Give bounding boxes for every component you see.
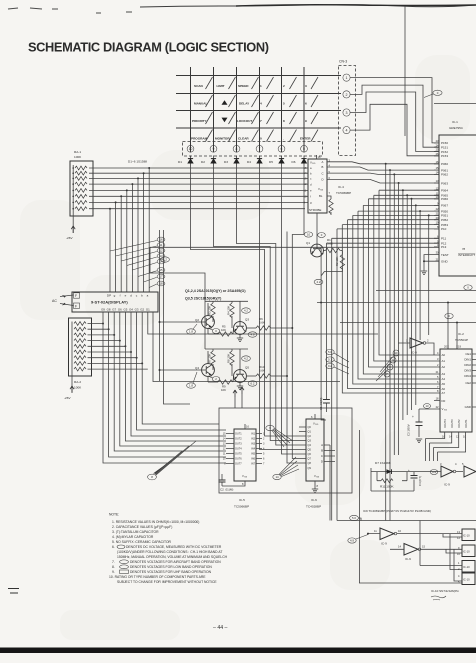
svg-text:STROBE: STROBE — [309, 208, 321, 212]
wire display segment drop 6 — [120, 195, 122, 292]
diode D1 — [178, 156, 193, 167]
svg-text:IC-10: IC-10 — [463, 550, 470, 554]
svg-text:DOUT4: DOUT4 — [444, 419, 447, 428]
wire display segment drop 7 — [115, 201, 117, 292]
wire bundle continuation I — [336, 310, 338, 521]
svg-text:P13: P13 — [441, 245, 447, 249]
svg-text:D1~6 1S1588: D1~6 1S1588 — [128, 160, 147, 164]
wire gate feeds to NAND inputs — [420, 521, 462, 582]
svg-text:PROGRAM: PROGRAM — [191, 137, 208, 141]
svg-text:C2 .01(M): C2 .01(M) — [220, 488, 233, 492]
svg-text:G8: G8 — [107, 308, 111, 312]
wire left feed to Q rails — [150, 247, 205, 349]
svg-text:7: 7 — [260, 119, 262, 123]
wire gate block top rail — [337, 430, 476, 583]
key up arrow — [222, 100, 228, 105]
wire CN-3 pin3 to IC-1 P152 — [350, 92, 439, 152]
wire IC-1 pin taps descending 10 — [428, 214, 430, 335]
resistor R6 5.6K — [246, 317, 293, 330]
svg-text:A2: A2 — [442, 365, 446, 369]
wire IC-2 pin19 riser — [456, 322, 458, 350]
svg-text:0: 0 — [260, 137, 262, 141]
svg-text:6.2: 6.2 — [251, 382, 255, 386]
keypad matrix grid — [176, 67, 341, 152]
wire DOUT2 routing — [434, 432, 459, 461]
svg-text:TC4028BP: TC4028BP — [306, 505, 321, 509]
wire IC-4 D to IC-1 P063 — [327, 179, 439, 183]
svg-text:D2: D2 — [201, 160, 205, 164]
svg-text:P064: P064 — [441, 189, 448, 193]
svg-text:0.1: 0.1 — [328, 358, 332, 362]
svg-text:1. RESISTANCE VALUES IN OHMS(K: 1. RESISTANCE VALUES IN OHMS(K=1000, M=1… — [112, 520, 199, 524]
svg-text:14: 14 — [275, 475, 279, 479]
voltage bubble 0 at Q2 — [208, 328, 220, 334]
wire bundle line 7 — [287, 232, 299, 464]
wire riser to IC-1 P11 — [332, 238, 439, 315]
svg-text:11: 11 — [160, 243, 163, 247]
svg-text:Q4: Q4 — [195, 366, 199, 370]
svg-text:IC-9: IC-9 — [405, 557, 411, 561]
svg-text:DP: DP — [107, 294, 111, 298]
svg-text:A6: A6 — [442, 387, 446, 391]
wire RA-2 row taps to grid lines — [88, 324, 148, 370]
svg-text:SPEED: SPEED — [238, 84, 249, 88]
svg-text:D5: D5 — [269, 160, 273, 164]
svg-text:SUBJECT TO CHANGE FOR IMPROVEM: SUBJECT TO CHANGE FOR IMPROVEMENT WITHOU… — [117, 580, 217, 584]
supply -26V for RA-1 — [66, 216, 75, 240]
svg-text:IN2: IN2 — [251, 438, 256, 441]
svg-text:P052: P052 — [441, 218, 448, 222]
svg-text:1: 1 — [346, 76, 348, 80]
capacitor C4 — [371, 468, 438, 491]
svg-text:15: 15 — [159, 268, 163, 272]
svg-text:F: F — [75, 304, 77, 308]
wire segment bus b — [89, 172, 308, 174]
voltage bubble 0 at Q1 — [318, 233, 326, 238]
node callout bubbles mid right — [326, 349, 349, 374]
voltage bubble 6.2 at Q5 out — [248, 381, 257, 386]
svg-text:DIN1: DIN1 — [464, 358, 471, 362]
svg-text:MANUAL: MANUAL — [194, 102, 208, 106]
node fan callout 8 — [148, 441, 196, 480]
svg-text:D3: D3 — [224, 160, 228, 164]
svg-text:D4: D4 — [247, 160, 251, 164]
svg-text:7.: 7. — [112, 560, 115, 564]
svg-text:10. RATING OR TYPE NUMBER OF C: 10. RATING OR TYPE NUMBER OF COMPONENT P… — [109, 575, 206, 579]
wire segment bus g — [89, 201, 308, 203]
svg-text:LOCKOUT: LOCKOUT — [237, 119, 252, 123]
wire left rail vertical 2 — [164, 230, 191, 404]
wire left rail vertical — [159, 230, 161, 381]
wire display segment drop 8 — [109, 208, 111, 292]
svg-text:-26V: -26V — [64, 396, 71, 400]
note symbol ellipses — [117, 545, 129, 573]
svg-text:4.2: 4.2 — [244, 309, 248, 313]
wire display grid G5 down — [125, 312, 226, 441]
wire long node P13 — [150, 246, 439, 248]
svg-text:A4: A4 — [442, 377, 446, 381]
svg-text:TC5069BP: TC5069BP — [336, 191, 351, 195]
voltage bubble 4.9 at Q3 out — [248, 332, 257, 337]
svg-text:DOUT3: DOUT3 — [451, 419, 454, 428]
svg-text:IC-9: IC-9 — [444, 483, 450, 487]
wire display segment drop 4 — [131, 183, 133, 292]
wire CN-3 pin4 to IC-1 P153 — [350, 104, 439, 156]
svg-text:R11 100K: R11 100K — [380, 485, 394, 489]
svg-text:+: + — [408, 468, 410, 472]
svg-text:A5: A5 — [442, 382, 446, 386]
inverter IC-9 unit c — [438, 462, 463, 487]
svg-text:B: B — [321, 449, 323, 453]
svg-text:9.: 9. — [112, 570, 115, 574]
resistor R7 10K — [208, 351, 216, 370]
svg-text:CE2: CE2 — [465, 381, 471, 385]
wire vertical scan line top right — [404, 6, 406, 136]
svg-text:GND: GND — [465, 405, 471, 409]
wire display grid G9 down — [103, 312, 226, 463]
svg-text:1.8: 1.8 — [189, 330, 193, 334]
svg-text:2. CAPACITANCE VALUES (µF)(P=µ: 2. CAPACITANCE VALUES (µF)(P=µµF) — [112, 525, 172, 529]
svg-text:A1: A1 — [442, 359, 446, 363]
wire riser to IC-1 P050 — [358, 211, 439, 290]
wire display grid G4 down — [131, 312, 226, 436]
key labels row 2 — [194, 102, 307, 106]
wire segment bus d — [89, 183, 308, 185]
svg-text:G1: G1 — [146, 308, 150, 312]
diode D5 — [269, 156, 284, 167]
svg-text:IC-2: IC-2 — [458, 332, 464, 336]
ground at Q5 emitter — [237, 386, 243, 390]
svg-text:OUT4: OUT4 — [235, 448, 242, 451]
svg-text:5. NO SUFFIX :CERAMIC CAPACITO: 5. NO SUFFIX :CERAMIC CAPACITOR — [112, 540, 172, 544]
voltage bubble 1.8 on Q2 base — [187, 324, 197, 334]
wire IC-4 B to IC-1 P061 — [327, 167, 439, 170]
svg-text:PRIORITY: PRIORITY — [192, 119, 208, 123]
svg-text:IC-10: IC-10 — [463, 578, 470, 582]
wire top right horizontal — [434, 102, 476, 104]
svg-text:A7: A7 — [442, 391, 446, 395]
svg-text:5.0: 5.0 — [328, 350, 332, 354]
svg-text:DENOTES DC VOLTAGE, MEASURED W: DENOTES DC VOLTAGE, MEASURED WITH DC VOL… — [126, 545, 222, 549]
svg-text:10: 10 — [307, 233, 311, 237]
resistor R2 10K — [321, 251, 344, 276]
svg-text:SCHEMATIC DIAGRAM (LOGIC SECTI: SCHEMATIC DIAGRAM (LOGIC SECTION) — [28, 40, 269, 55]
key switch slashes — [206, 77, 319, 142]
svg-text:AC: AC — [52, 299, 57, 303]
svg-text:GND: GND — [441, 260, 449, 264]
wire Q4 collector rail — [205, 349, 248, 370]
key labels row 4 — [191, 137, 311, 141]
svg-text:G4: G4 — [129, 308, 133, 312]
key labels row 1 — [194, 84, 307, 88]
wire display grid G8 down — [109, 312, 226, 457]
wire DOUT3 routing — [430, 432, 452, 461]
svg-text:.: . — [283, 137, 284, 141]
wire bundle continuation H — [342, 305, 434, 393]
resistor R10 5.6K — [246, 365, 288, 378]
svg-text:IC-9: IC-9 — [411, 351, 417, 355]
wire riser to IC-1 P051 — [353, 215, 439, 295]
wire IC-1 pin taps descending 2 — [389, 169, 391, 520]
wire IC-4 C to IC-1 P062 — [327, 173, 439, 174]
wire CN-3 pin2 to IC-1 P151 — [350, 85, 439, 147]
wire IC-1 pin taps descending 4 — [398, 182, 400, 455]
svg-text:Q1,2,4 2SA1015(O)(Y) or 2SA49: Q1,2,4 2SA1015(O)(Y) or 2SA495(O) — [185, 289, 246, 293]
svg-text:2: 2 — [283, 84, 285, 88]
svg-text:5: 5 — [303, 147, 305, 151]
svg-text:6: 6 — [281, 147, 283, 151]
svg-text:(100KΩ/V)UNDER FOLLOWING CONDI: (100KΩ/V)UNDER FOLLOWING CONDITIONS : CH… — [117, 550, 222, 554]
svg-text:ENTER: ENTER — [300, 137, 311, 141]
wire bundle continuation K — [321, 247, 326, 420]
svg-text:IC-10: IC-10 — [463, 565, 470, 569]
wire segment bus c — [89, 177, 308, 179]
svg-text:CE1: CE1 — [465, 352, 471, 356]
wire bundle continuation A — [379, 270, 434, 355]
svg-text:D0: D0 — [442, 399, 446, 403]
svg-text:G7: G7 — [112, 308, 116, 312]
svg-text:14: 14 — [398, 545, 401, 549]
svg-text:OUT1: OUT1 — [235, 433, 242, 436]
svg-text:10K: 10K — [221, 328, 226, 332]
svg-text:150MHz, MANUAL OPERATION, VOLU: 150MHz, MANUAL OPERATION, VOLUME AT MINI… — [117, 555, 228, 559]
node fan callout 9 — [266, 425, 293, 447]
wire bundle continuation G — [348, 300, 434, 389]
transistor Q3 — [234, 318, 250, 339]
svg-text:12: 12 — [159, 249, 163, 253]
resistor network RA-2 100K — [69, 318, 92, 390]
wire display grid G7 down — [114, 312, 226, 451]
svg-text:G2: G2 — [140, 308, 144, 312]
wire segment bus a (RA-1 to IC-4) — [89, 167, 308, 169]
svg-text:8: 8 — [283, 119, 285, 123]
svg-text:G9: G9 — [101, 308, 105, 312]
svg-text:9: 9 — [305, 119, 307, 123]
svg-text:R2 10K: R2 10K — [335, 257, 339, 266]
svg-text:100K: 100K — [74, 155, 82, 159]
svg-text:P11: P11 — [441, 237, 446, 241]
svg-text:+: + — [412, 415, 414, 419]
svg-text:3: 3 — [346, 111, 348, 115]
svg-text:2.2: 2.2 — [163, 258, 167, 262]
svg-text:4: 4 — [260, 102, 262, 106]
ground at Q3 emitter — [237, 338, 243, 342]
wire riser to IC-1 P053 — [342, 225, 439, 305]
transistor Q4 — [159, 351, 215, 382]
wire IC-1 pin taps descending 5 — [402, 189, 404, 420]
svg-text:DD: DD — [312, 163, 316, 165]
svg-text:OUT5: OUT5 — [235, 453, 242, 456]
svg-text:IN3: IN3 — [251, 443, 256, 446]
svg-text:0.2: 0.2 — [328, 364, 332, 368]
wire bundle continuation C — [369, 280, 435, 367]
svg-text:IC-10: IC-10 — [463, 534, 470, 538]
voltage bubble 4.2 at Q3 — [242, 308, 251, 313]
supply -26V for RA-2 — [64, 376, 74, 400]
wire bundle continuation J — [331, 315, 333, 521]
IC-4 TC5069BP keyboard encoder — [304, 155, 352, 213]
svg-text:IN7: IN7 — [251, 463, 256, 466]
keypad common dashed box — [183, 142, 323, 157]
svg-text:DENOTES VOLTAGES FOR AIRCRAFT: DENOTES VOLTAGES FOR AIRCRAFT BAND OPERA… — [130, 560, 221, 564]
svg-text:10: 10 — [398, 529, 401, 533]
resistor R3 10K — [208, 303, 216, 322]
svg-text:4.9: 4.9 — [350, 539, 354, 543]
wire segment bus f — [89, 195, 308, 197]
voltage bubble 0V on CN wire — [424, 90, 442, 97]
wire segment bus e — [89, 189, 308, 191]
wire bundle continuation E — [358, 290, 434, 379]
svg-text:LIMIT: LIMIT — [217, 84, 225, 88]
voltage bubble 4.2 below Q1 — [314, 279, 323, 284]
svg-text:Q1: Q1 — [306, 241, 310, 245]
svg-text:G5: G5 — [123, 308, 127, 312]
svg-text:OUT2: OUT2 — [235, 438, 242, 441]
svg-text:BL: BL — [319, 194, 323, 198]
resistor R4 10K — [227, 303, 235, 328]
svg-text:SCAN: SCAN — [194, 84, 204, 88]
NAND gate IC-10 unit 2 — [457, 545, 475, 557]
svg-text:Q3: Q3 — [245, 318, 249, 322]
inverter IC-9 unit a — [398, 338, 434, 355]
wire riser to IC-1 P052 — [348, 220, 439, 300]
svg-text:IC-6: IC-6 — [311, 498, 317, 502]
svg-text:5: 5 — [283, 102, 285, 106]
svg-text:7: 7 — [259, 147, 261, 151]
wire riser to IC-1 P065 — [374, 195, 439, 275]
svg-text:D: D — [321, 460, 323, 464]
scan artifact bottom black bar — [0, 648, 476, 654]
svg-text:18: 18 — [159, 282, 163, 286]
svg-text:9-ST-02A(DISPLAY): 9-ST-02A(DISPLAY) — [91, 300, 128, 305]
wire Q2 collector rail — [205, 301, 248, 321]
svg-text:DIN4: DIN4 — [464, 374, 471, 378]
key down arrow — [222, 118, 228, 123]
svg-text:IN5: IN5 — [251, 453, 256, 456]
svg-text:A0: A0 — [442, 353, 446, 357]
svg-text:CN-3: CN-3 — [339, 60, 347, 64]
wire IC-1 pin taps descending 7 — [411, 198, 413, 410]
voltage bubble 4.9 at inverter e input — [348, 535, 368, 544]
svg-text:2: 2 — [346, 93, 348, 97]
svg-text:5.6K: 5.6K — [259, 369, 265, 373]
svg-text:78: 78 — [462, 247, 466, 251]
svg-text:1: 1 — [260, 84, 262, 88]
voltage bubble 1.8 on Q4 base — [187, 372, 197, 388]
svg-text:IN4: IN4 — [251, 448, 256, 451]
svg-text:IC-10 SN74LS26(Pin: IC-10 SN74LS26(Pin — [431, 589, 459, 593]
svg-text:G6: G6 — [118, 308, 122, 312]
svg-text:OUT3: OUT3 — [235, 443, 242, 446]
inverter IC-9 unit e — [367, 528, 462, 546]
svg-text:C: C — [321, 454, 323, 458]
transistor Q1 — [306, 213, 323, 257]
svg-text:DIN3: DIN3 — [464, 369, 471, 373]
resistor on BL pin — [327, 196, 333, 215]
supply arrows above decoder — [233, 390, 237, 397]
wire keypad col6 down to bundle — [292, 167, 304, 459]
svg-text:DD: DD — [315, 424, 319, 426]
voltage bubble 4.2 at Q5 — [242, 356, 251, 361]
svg-text:GRE7954: GRE7954 — [449, 126, 463, 130]
capacitor C3 1/50V — [407, 404, 431, 443]
scan artifact left edge marks — [8, 589, 19, 594]
svg-text:DOUT1: DOUT1 — [465, 419, 468, 428]
diode D6 — [292, 156, 307, 167]
wire bundle continuation F — [353, 295, 434, 384]
svg-text:F: F — [75, 294, 77, 298]
svg-text:3: 3 — [305, 84, 307, 88]
wire IC-6 BCD outputs to risers — [330, 445, 335, 521]
svg-text:5.6K: 5.6K — [327, 242, 333, 246]
svg-text:DENOTES VOLTAGES FOR UHF BAND: DENOTES VOLTAGES FOR UHF BAND OPERATION — [130, 570, 212, 574]
svg-text:– 44 –: – 44 – — [213, 625, 228, 631]
svg-text:10K: 10K — [221, 388, 226, 392]
svg-text:3. (T):TANTALUM CAPACITOR: 3. (T):TANTALUM CAPACITOR — [112, 530, 159, 534]
svg-text:DENOTES VOLTAGES FOR LOW BAND: DENOTES VOLTAGES FOR LOW BAND OPERATION — [130, 565, 212, 569]
svg-text:P062: P062 — [441, 173, 448, 177]
wire CN-3 pin1 to IC-1 P150 — [350, 78, 439, 143]
svg-text:C: C — [322, 171, 324, 175]
svg-text:C4 (CT): C4 (CT) — [418, 476, 422, 486]
svg-text:MONITOR: MONITOR — [215, 137, 230, 141]
inverter IC-9 unit d — [462, 462, 476, 477]
inverter IC-9 unit f — [390, 544, 462, 562]
wire display grid G6 down — [120, 312, 226, 446]
svg-text:4.2: 4.2 — [317, 280, 321, 284]
svg-text:IC-1: IC-1 — [452, 120, 458, 124]
svg-text:OUT7: OUT7 — [235, 463, 242, 466]
wire bundle continuation D — [363, 285, 434, 374]
svg-text:4.2: 4.2 — [244, 357, 248, 361]
svg-text:4.9: 4.9 — [432, 470, 436, 474]
wire riser to IC-1 P10 — [337, 229, 439, 310]
resistor R1 5.6K — [323, 238, 342, 253]
wire display segment drop 3 — [137, 177, 139, 292]
svg-text:IC-9: IC-9 — [381, 542, 387, 546]
svg-text:TC5066BP: TC5066BP — [234, 505, 249, 509]
svg-text:100K: 100K — [74, 386, 82, 390]
wire DOUT4 routing — [426, 432, 445, 461]
svg-text:P067: P067 — [441, 204, 448, 208]
svg-text:A: A — [321, 443, 323, 447]
svg-text:P10: P10 — [441, 227, 447, 231]
voltage bubble 2 at Q4 — [208, 376, 220, 382]
svg-text:IC-4: IC-4 — [338, 185, 344, 189]
svg-text:C3 1/50V: C3 1/50V — [407, 424, 411, 436]
wire keypad col2 down to bundle — [214, 167, 300, 441]
wire display anode right — [153, 312, 340, 382]
wire IC-1 pin taps descending 6 — [406, 194, 408, 415]
capacitor C2 .01(M) — [219, 474, 246, 492]
notes text block — [109, 513, 228, 585]
svg-text:IN6: IN6 — [251, 458, 256, 461]
svg-text:IC-5: IC-5 — [239, 498, 245, 502]
svg-text:P153: P153 — [441, 154, 448, 158]
svg-text:17: 17 — [159, 275, 163, 279]
svg-text:10: 10 — [189, 147, 193, 151]
wire riser to IC-1 P067 — [363, 205, 439, 285]
diode D7 1S1588 with R11 — [371, 461, 414, 491]
transistor Q5 — [234, 366, 250, 387]
wire riser to IC-1 P064 — [379, 190, 439, 270]
wire IC-1 pin taps descending 9 — [419, 210, 421, 340]
svg-text:DELAY: DELAY — [239, 102, 250, 106]
svg-text:Q5: Q5 — [245, 366, 249, 370]
svg-text:6.: 6. — [112, 545, 115, 549]
wire IC-2 CE1 riser — [445, 302, 453, 350]
NAND gate IC-10 unit 1 — [457, 529, 475, 541]
